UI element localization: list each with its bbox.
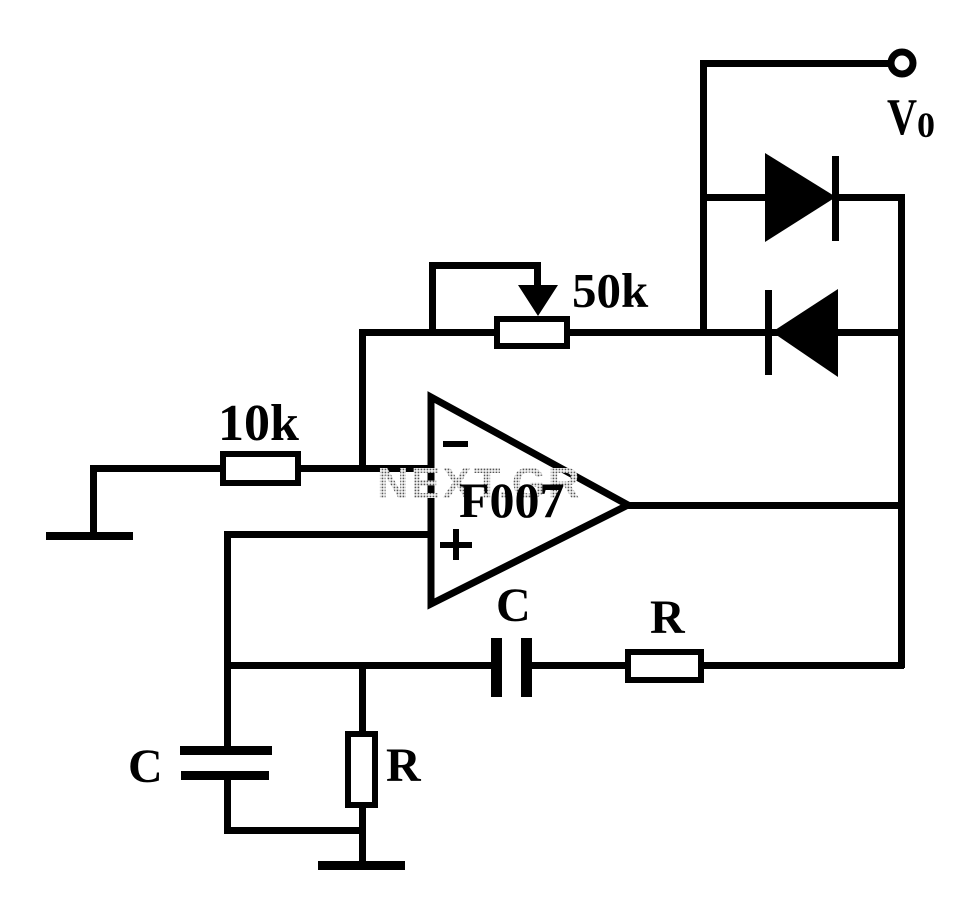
resistor R (bottom) <box>628 652 701 680</box>
wire: input ground stem <box>90 465 97 536</box>
terminal Vo (open circle) <box>891 52 913 74</box>
svg-text:F007: F007 <box>459 472 565 528</box>
diode D1 (pointing right, top) <box>765 153 836 242</box>
wire: right rail vertical (diode node down to bottom R row) <box>898 194 905 668</box>
svg-text:C: C <box>128 740 163 793</box>
wire: R (vertical) top lead <box>359 668 366 734</box>
wire: input wire left of 10k <box>90 465 223 472</box>
wire: wiper loop top <box>429 262 539 269</box>
diode D2 anode bar <box>765 290 772 375</box>
wire: left branch vertical (noninv input down to bottom row and cap C) <box>224 531 231 746</box>
wire: bottom return wire <box>224 827 365 834</box>
capacitor C (series) right plate <box>521 638 532 697</box>
op-amp U1 F007 <box>431 397 628 604</box>
op-amp plus sign <box>440 542 472 548</box>
wire: top output wire to terminal <box>700 60 890 67</box>
wire: feedback row (pot to diode D2 and right rail) <box>359 329 900 336</box>
wire: op-amp output to right rail <box>626 502 901 509</box>
ground (bottom) <box>318 861 405 870</box>
wire: series cap to resistor R <box>532 662 628 669</box>
wiper arrow stem <box>534 262 541 290</box>
capacitor C (series) left plate <box>491 638 502 697</box>
wire: left rail vertical (Vo node down to feedback row) <box>700 60 707 334</box>
potentiometer 50k body <box>497 319 567 346</box>
op-amp minus sign <box>443 441 468 447</box>
wire: feedback vertical down to inverting input <box>359 329 366 471</box>
svg-text:V: V <box>887 89 917 146</box>
wire: R (vertical) bottom lead to ground <box>359 805 366 863</box>
ground (input) <box>46 532 133 540</box>
wire: bottom row left segment <box>224 662 492 669</box>
wire: 10k to op-amp inverting input <box>298 465 433 472</box>
wire: diode D1 cathode wire to right rail <box>839 194 904 201</box>
capacitor C (shunt, left) top plate <box>180 746 272 755</box>
wiper arrow head <box>518 285 558 316</box>
wire: non-inverting input horizontal <box>224 531 431 538</box>
svg-text:R: R <box>650 591 686 644</box>
wire: diode D1 anode wire <box>700 194 768 201</box>
svg-text:0: 0 <box>917 105 935 145</box>
resistor 10k <box>223 454 298 483</box>
capacitor C (shunt, left) bottom plate <box>181 771 269 780</box>
wire: bottom R to right rail <box>701 662 904 669</box>
wire: wiper loop left vertical <box>429 262 436 334</box>
svg-text:50k: 50k <box>572 263 649 318</box>
svg-text:R: R <box>386 739 422 792</box>
svg-text:C: C <box>496 579 531 632</box>
svg-text:10k: 10k <box>218 395 299 452</box>
resistor R (vertical) <box>348 734 375 805</box>
diode D2 (pointing left, bottom) <box>772 289 838 377</box>
wire: left cap bottom stem <box>224 780 231 833</box>
diode D1 cathode bar <box>832 156 839 241</box>
